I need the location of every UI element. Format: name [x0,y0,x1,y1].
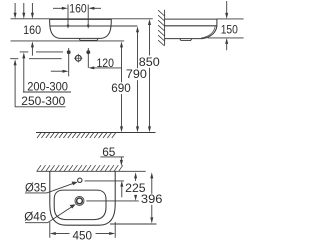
bottom view wall hatch [37,165,123,171]
drain height line H3 [10,58,61,60]
down arrow 1 on wall line [14,3,17,19]
wall line front view [11,18,153,20]
150 top extension line [217,18,244,20]
tap hole extension line [85,180,124,182]
basin bottom extension line H1 [11,40,125,42]
up arrow to tap line [120,181,123,198]
floor line [36,132,156,134]
dimension 120 [88,66,121,69]
svg-text:850: 850 [139,55,160,69]
150 bottom extension line [208,37,244,39]
side view basin rim [165,19,217,26]
bottom view wall line [37,170,146,172]
front edge extension line [110,223,157,225]
drain extension line [86,200,138,202]
label 65 with leader [100,157,124,166]
dimension line 790 [136,26,139,132]
floor hatch [37,132,116,138]
side view inner bowl line [201,26,215,38]
dimension 396 [150,172,153,223]
dimension 450 [50,222,115,238]
drain outer circle [75,196,84,205]
svg-text:396: 396 [141,192,163,206]
dimension line 690 [120,41,123,132]
svg-text:450: 450 [73,229,93,243]
svg-text:150: 150 [221,22,238,36]
arrow right to valve line [51,70,69,73]
down arrow 2 on wall line [22,3,25,19]
dimension 160 top [53,7,101,10]
svg-text:200-300: 200-300 [27,79,68,93]
tap hole circle [78,178,82,182]
up arrow A1 to basin bottom [31,41,34,55]
svg-text:160: 160 [23,23,41,37]
drain inner circle [77,198,83,204]
basin top-view outline [50,171,115,225]
fixing holes line [50,25,138,27]
svg-text:790: 790 [126,67,147,81]
supply height line H2 [20,51,63,53]
svg-text:120: 120 [96,56,114,70]
svg-text:Ø46: Ø46 [24,210,46,224]
svg-text:250-300: 250-300 [21,94,65,108]
side view basin body [165,26,217,39]
basin front drain bump [79,38,98,40]
vertical through right dot [87,48,89,68]
dimension line 850 [148,19,151,132]
svg-text:690: 690 [111,81,131,95]
up arrow A2 with leader to 200-300 [22,52,71,92]
vertical through left dot [68,48,70,76]
side view drain bump [180,39,192,41]
down arrow 3 on wall line [31,3,34,19]
faucet hole symbol [74,54,83,63]
side view wall line [164,10,166,45]
fixing hole tick right [87,5,90,29]
fixing hole tick left [67,5,70,29]
svg-text:Ø35: Ø35 [25,181,47,195]
basin front outline [50,19,112,38]
dimension 225 [134,172,137,200]
svg-text:160: 160 [69,1,87,15]
svg-text:65: 65 [102,145,115,159]
fixing dot right [86,50,90,54]
fixing dot left [67,50,71,54]
up arrow A3 with leader to 250-300 [14,59,66,107]
basin top-view inner bowl [54,190,106,220]
side view wall hatch [158,10,165,46]
dimension 150 [225,1,228,50]
